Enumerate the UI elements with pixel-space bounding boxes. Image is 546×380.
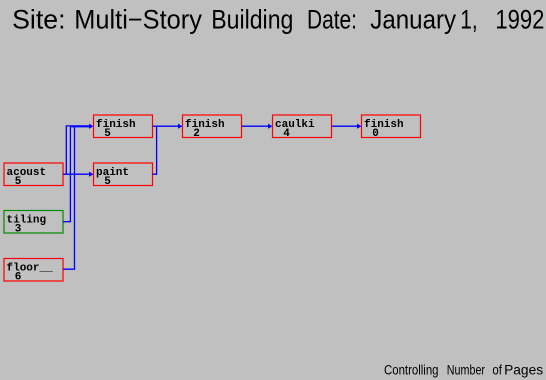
node finish2 [183,115,242,140]
wire acoust to paint horizontal [63,173,91,175]
svg-text:4: 4 [283,128,290,140]
svg-text:of: of [492,363,502,379]
arrowhead into finish0 [357,124,362,129]
svg-text:finish: finish [185,119,225,131]
wire caulki to finish0 [332,125,360,127]
svg-text:1,: 1, [460,5,477,35]
svg-text:January: January [370,5,456,35]
svg-text:finish: finish [364,119,404,131]
svg-text:Multi−Story: Multi−Story [74,5,202,35]
wire acoust to finish5: up leg [66,126,91,174]
svg-text:5: 5 [104,176,111,188]
svg-text:paint: paint [96,167,129,179]
svg-text:5: 5 [104,128,111,140]
svg-text:6: 6 [15,271,22,283]
svg-text:Building: Building [211,5,293,35]
svg-text:finish: finish [96,119,136,131]
svg-text:Site:: Site: [12,5,65,35]
svg-text:Controlling: Controlling [384,363,439,379]
svg-text:acoust: acoust [7,167,47,179]
svg-text:Pages: Pages [504,363,543,379]
svg-text:3: 3 [15,223,22,235]
arrowhead into caulki [268,124,273,129]
node finish5 [94,115,153,140]
arrowhead into finish5 [89,124,94,129]
title [12,5,544,35]
svg-text:Date:: Date: [307,5,357,35]
wire paint up to finish2 line [153,126,157,174]
svg-text:0: 0 [372,128,379,140]
svg-text:Number: Number [447,363,485,379]
node tiling [4,211,63,236]
node floor [4,259,63,284]
wire tiling to finish5 [63,127,91,222]
footnote [384,363,543,379]
arrowhead into paint [89,172,94,177]
arrowhead into finish2 [178,124,183,129]
node caulki [273,115,332,140]
wires [63,126,360,269]
svg-text:1992: 1992 [495,5,544,35]
node paint [94,163,153,188]
node acoust [4,163,63,188]
wire floor to finish5 [63,127,75,270]
wire finish5 to finish2 [153,125,181,127]
svg-text:tiling: tiling [7,215,47,227]
svg-text:5: 5 [15,176,22,188]
wire finish2 to caulki [242,125,271,127]
svg-text:caulki: caulki [275,119,315,131]
svg-text:2: 2 [193,128,200,140]
node finish0 [362,115,421,140]
svg-text:floor__: floor__ [7,263,54,275]
